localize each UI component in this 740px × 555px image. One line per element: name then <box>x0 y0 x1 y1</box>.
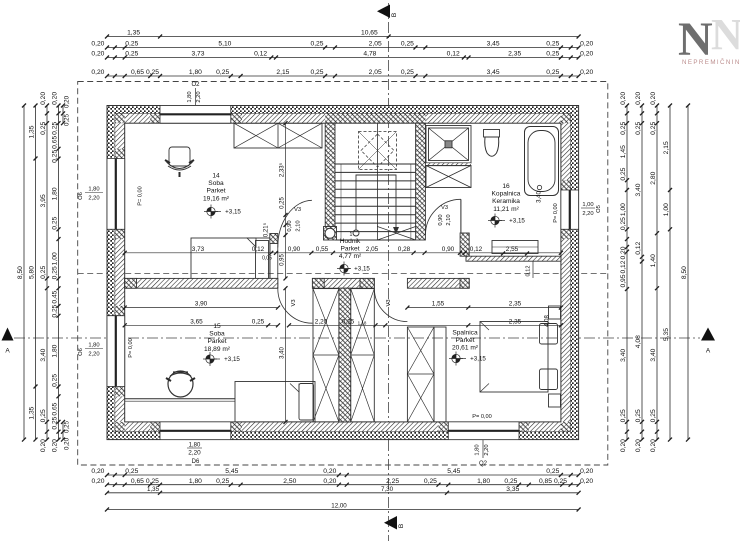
svg-text:0,95: 0,95 <box>620 274 627 287</box>
svg-text:1,45: 1,45 <box>620 145 627 158</box>
svg-text:0,65: 0,65 <box>131 69 144 76</box>
svg-text:0,20: 0,20 <box>91 51 104 58</box>
svg-text:0,25: 0,25 <box>125 51 138 58</box>
svg-text:0,25: 0,25 <box>546 468 559 475</box>
svg-text:3,40: 3,40 <box>280 347 286 359</box>
svg-text:8,50: 8,50 <box>17 266 24 279</box>
svg-text:0,25: 0,25 <box>620 409 627 422</box>
svg-text:5,45: 5,45 <box>225 468 238 475</box>
svg-text:0,20: 0,20 <box>650 439 657 452</box>
svg-text:1,55: 1,55 <box>432 301 445 308</box>
svg-text:0,20: 0,20 <box>620 246 627 259</box>
svg-text:N: N <box>711 10 740 59</box>
svg-text:+3,15: +3,15 <box>354 266 370 273</box>
svg-text:V3: V3 <box>294 207 301 213</box>
svg-text:0,25: 0,25 <box>310 69 323 76</box>
svg-text:0,20: 0,20 <box>580 69 593 76</box>
svg-text:P= 0,00: P= 0,00 <box>472 414 491 420</box>
svg-text:0,65: 0,65 <box>131 478 144 485</box>
svg-text:1,35: 1,35 <box>147 486 160 493</box>
svg-text:0,25: 0,25 <box>620 217 627 230</box>
svg-text:0,25: 0,25 <box>310 41 323 48</box>
svg-text:0,45: 0,45 <box>52 290 59 303</box>
svg-text:1,40: 1,40 <box>650 254 657 267</box>
svg-text:+3,15: +3,15 <box>225 209 241 216</box>
svg-text:Kopalnica: Kopalnica <box>492 191 521 198</box>
svg-text:0,20: 0,20 <box>650 92 657 105</box>
svg-text:0,20: 0,20 <box>52 92 59 105</box>
svg-text:0,25: 0,25 <box>125 468 138 475</box>
svg-text:O5: O5 <box>596 205 602 213</box>
svg-text:3,40: 3,40 <box>650 348 657 361</box>
svg-text:Parket: Parket <box>206 188 225 195</box>
svg-text:1,80: 1,80 <box>52 187 59 200</box>
svg-text:0,25: 0,25 <box>146 69 159 76</box>
svg-text:0,12: 0,12 <box>470 246 483 253</box>
svg-text:4,78: 4,78 <box>363 51 376 58</box>
svg-text:2,05: 2,05 <box>369 69 382 76</box>
svg-text:0,25: 0,25 <box>650 122 657 135</box>
svg-text:0,25: 0,25 <box>52 122 59 135</box>
svg-text:3,40: 3,40 <box>40 348 47 361</box>
svg-text:0,25: 0,25 <box>424 478 437 485</box>
svg-text:0,12: 0,12 <box>526 266 532 277</box>
svg-text:0,25: 0,25 <box>635 409 642 422</box>
svg-text:1,00: 1,00 <box>52 252 59 265</box>
svg-text:0,25: 0,25 <box>52 266 59 279</box>
svg-text:0,25: 0,25 <box>280 197 286 209</box>
svg-text:V3: V3 <box>441 205 448 211</box>
svg-text:0,25: 0,25 <box>401 41 414 48</box>
svg-text:1,00: 1,00 <box>582 202 593 208</box>
svg-text:0,85: 0,85 <box>539 478 552 485</box>
svg-text:0,25: 0,25 <box>146 478 159 485</box>
svg-text:4,08: 4,08 <box>545 315 551 327</box>
svg-text:O2: O2 <box>191 82 200 88</box>
svg-text:2,25: 2,25 <box>386 478 399 485</box>
svg-text:0,20: 0,20 <box>91 41 104 48</box>
svg-text:0,90: 0,90 <box>442 246 455 253</box>
svg-text:P= 0,00: P= 0,00 <box>553 203 559 222</box>
svg-text:3,73: 3,73 <box>192 246 205 253</box>
svg-text:0,20: 0,20 <box>40 439 47 452</box>
svg-text:0,25: 0,25 <box>504 478 517 485</box>
svg-text:0,25: 0,25 <box>342 318 355 325</box>
svg-text:0,95: 0,95 <box>280 254 286 266</box>
svg-text:Soba: Soba <box>208 180 224 187</box>
svg-text:P= 0,00: P= 0,00 <box>128 338 134 357</box>
svg-text:2,20: 2,20 <box>88 352 99 358</box>
svg-text:19,16 m²: 19,16 m² <box>203 195 230 202</box>
svg-text:0,90: 0,90 <box>438 214 444 225</box>
svg-text:0,25: 0,25 <box>40 122 47 135</box>
svg-text:0,20: 0,20 <box>580 41 593 48</box>
svg-text:2,33⁵: 2,33⁵ <box>279 162 286 177</box>
svg-text:4,08: 4,08 <box>635 335 642 348</box>
svg-text:1,00: 1,00 <box>663 203 670 216</box>
svg-text:+3,15: +3,15 <box>224 356 240 363</box>
svg-text:2,80: 2,80 <box>650 171 657 184</box>
svg-text:2,35: 2,35 <box>508 51 521 58</box>
svg-text:2,15: 2,15 <box>663 141 670 154</box>
svg-text:2,20: 2,20 <box>188 450 201 457</box>
svg-text:Hodnik: Hodnik <box>340 238 361 245</box>
svg-text:0,20: 0,20 <box>580 51 593 58</box>
svg-text:2,50: 2,50 <box>283 478 296 485</box>
svg-text:Q2: Q2 <box>479 461 488 467</box>
svg-text:0,12: 0,12 <box>635 241 642 254</box>
svg-text:1,35: 1,35 <box>29 125 36 138</box>
svg-text:0,12: 0,12 <box>447 51 460 58</box>
svg-text:1,35: 1,35 <box>29 406 36 419</box>
svg-text:2,55: 2,55 <box>506 246 519 253</box>
svg-text:0,25: 0,25 <box>401 69 414 76</box>
svg-text:0,12: 0,12 <box>254 51 267 58</box>
svg-text:0,25: 0,25 <box>546 69 559 76</box>
svg-text:3,35: 3,35 <box>506 486 519 493</box>
svg-text:0,20: 0,20 <box>52 439 59 452</box>
svg-text:2,05: 2,05 <box>369 41 382 48</box>
svg-text:2,15: 2,15 <box>276 69 289 76</box>
svg-text:1,80: 1,80 <box>477 478 490 485</box>
svg-text:14: 14 <box>212 173 220 180</box>
svg-text:0,25: 0,25 <box>650 409 657 422</box>
svg-text:5,45: 5,45 <box>447 468 460 475</box>
svg-text:0,12: 0,12 <box>252 246 265 253</box>
svg-text:0,20: 0,20 <box>620 92 627 105</box>
svg-text:B: B <box>391 13 398 17</box>
svg-text:1,80: 1,80 <box>187 91 193 102</box>
svg-text:O6: O6 <box>78 192 84 200</box>
svg-text:2,35: 2,35 <box>509 301 522 308</box>
svg-text:3,90: 3,90 <box>195 301 208 308</box>
svg-text:4,77 m²: 4,77 m² <box>339 253 362 260</box>
svg-text:0,20: 0,20 <box>91 478 104 485</box>
svg-text:Soba: Soba <box>209 331 225 338</box>
svg-text:O6: O6 <box>78 348 84 356</box>
svg-text:0,28: 0,28 <box>398 246 411 253</box>
svg-text:1,80: 1,80 <box>52 344 59 357</box>
svg-text:0,21⁵: 0,21⁵ <box>263 222 270 237</box>
svg-text:7,30: 7,30 <box>381 486 394 493</box>
svg-text:0,25: 0,25 <box>64 420 71 433</box>
svg-text:1,18: 1,18 <box>358 320 367 325</box>
svg-text:Parket: Parket <box>207 338 226 345</box>
svg-text:0,55: 0,55 <box>316 246 329 253</box>
svg-text:0,25: 0,25 <box>546 51 559 58</box>
svg-text:0,25: 0,25 <box>40 266 47 279</box>
svg-text:2,20: 2,20 <box>196 91 202 102</box>
svg-text:16: 16 <box>502 183 510 190</box>
svg-text:1,00: 1,00 <box>620 203 627 216</box>
svg-text:Parket: Parket <box>340 246 359 253</box>
svg-text:3,95: 3,95 <box>40 194 47 207</box>
svg-text:Keramika: Keramika <box>492 198 520 205</box>
svg-text:15: 15 <box>213 323 221 330</box>
svg-text:0,20: 0,20 <box>580 478 593 485</box>
svg-text:3,73: 3,73 <box>191 51 204 58</box>
svg-text:0,20: 0,20 <box>91 468 104 475</box>
svg-text:2,20: 2,20 <box>484 444 490 455</box>
svg-text:1,80: 1,80 <box>189 478 202 485</box>
svg-text:2,20: 2,20 <box>88 196 99 202</box>
svg-text:0,20: 0,20 <box>323 478 336 485</box>
svg-text:2,20: 2,20 <box>582 211 593 217</box>
svg-text:1,80: 1,80 <box>88 343 99 349</box>
svg-text:0,25: 0,25 <box>125 41 138 48</box>
svg-text:A: A <box>706 348 711 355</box>
svg-text:1,35: 1,35 <box>127 30 140 37</box>
svg-text:V3: V3 <box>386 299 392 306</box>
svg-text:0,25: 0,25 <box>252 318 265 325</box>
svg-text:D6: D6 <box>192 459 200 465</box>
svg-text:Parket: Parket <box>455 337 474 344</box>
svg-text:0,20: 0,20 <box>580 468 593 475</box>
svg-text:10,65: 10,65 <box>361 30 378 37</box>
svg-text:5,80: 5,80 <box>29 266 36 279</box>
svg-text:0,20: 0,20 <box>323 468 336 475</box>
svg-text:3,65: 3,65 <box>190 318 203 325</box>
svg-text:3,45: 3,45 <box>487 41 500 48</box>
svg-text:+3,15: +3,15 <box>470 356 486 363</box>
svg-text:0,20: 0,20 <box>40 92 47 105</box>
svg-text:0,25: 0,25 <box>52 374 59 387</box>
svg-text:NEPREMIČNINE: NEPREMIČNINE <box>682 59 740 66</box>
svg-text:3,45: 3,45 <box>487 69 500 76</box>
svg-text:0,20: 0,20 <box>64 437 71 450</box>
svg-text:2,10: 2,10 <box>296 220 302 231</box>
svg-text:0,25: 0,25 <box>635 122 642 135</box>
svg-text:0,25: 0,25 <box>620 122 627 135</box>
svg-text:0,25: 0,25 <box>546 41 559 48</box>
svg-text:0,20: 0,20 <box>620 439 627 452</box>
svg-text:0,25: 0,25 <box>554 478 567 485</box>
svg-text:11,21 m²: 11,21 m² <box>493 206 519 213</box>
svg-text:0,90: 0,90 <box>288 246 301 253</box>
svg-text:2,10: 2,10 <box>446 214 452 225</box>
svg-text:P= 0,00: P= 0,00 <box>138 186 144 205</box>
svg-text:0,65: 0,65 <box>52 402 59 415</box>
svg-text:1,80: 1,80 <box>189 69 202 76</box>
svg-text:V3: V3 <box>291 299 297 306</box>
svg-text:3,40: 3,40 <box>537 191 543 203</box>
svg-text:0,20: 0,20 <box>635 92 642 105</box>
svg-text:3,40: 3,40 <box>635 183 642 196</box>
svg-text:2,20: 2,20 <box>315 318 328 325</box>
svg-text:0,25: 0,25 <box>52 216 59 229</box>
svg-text:1,80: 1,80 <box>475 444 481 455</box>
svg-text:2,35: 2,35 <box>509 318 522 325</box>
svg-text:B: B <box>398 524 405 528</box>
svg-text:3,40: 3,40 <box>620 349 627 362</box>
svg-text:0,25: 0,25 <box>216 478 229 485</box>
svg-text:0,20: 0,20 <box>635 439 642 452</box>
svg-text:0,20: 0,20 <box>64 95 71 108</box>
svg-text:0,25: 0,25 <box>620 167 627 180</box>
svg-text:A: A <box>5 348 10 355</box>
svg-text:18,89 m²: 18,89 m² <box>204 346 231 353</box>
svg-text:1,80: 1,80 <box>189 443 201 449</box>
svg-text:20,61 m²: 20,61 m² <box>452 345 479 352</box>
svg-text:5,35: 5,35 <box>663 328 670 341</box>
svg-text:1: 1 <box>350 232 353 238</box>
svg-text:0,12: 0,12 <box>620 260 627 273</box>
svg-text:0,25: 0,25 <box>52 416 59 429</box>
svg-text:2,05: 2,05 <box>366 246 379 253</box>
svg-text:0,05: 0,05 <box>262 256 272 262</box>
svg-text:+3,15: +3,15 <box>509 218 525 225</box>
svg-text:0,20: 0,20 <box>91 69 104 76</box>
svg-text:0,25: 0,25 <box>216 69 229 76</box>
svg-text:1,80: 1,80 <box>88 187 99 193</box>
svg-text:5,10: 5,10 <box>218 41 231 48</box>
svg-text:0,25: 0,25 <box>52 150 59 163</box>
svg-text:0,25: 0,25 <box>52 304 59 317</box>
svg-text:Spalnica: Spalnica <box>452 330 478 337</box>
svg-text:12,00: 12,00 <box>331 503 347 510</box>
svg-text:0,25: 0,25 <box>64 113 71 126</box>
svg-text:0,25: 0,25 <box>40 409 47 422</box>
svg-text:8,50: 8,50 <box>681 266 688 279</box>
svg-text:0,65: 0,65 <box>52 136 59 149</box>
svg-text:0,90: 0,90 <box>287 220 293 231</box>
